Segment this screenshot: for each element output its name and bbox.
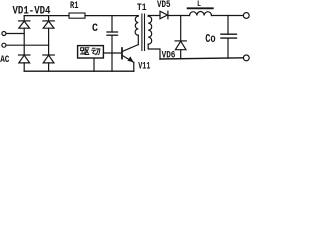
AC input terminal 1: [2, 32, 6, 36]
svg-text:VD1-VD4: VD1-VD4: [13, 6, 51, 18]
wire bridge right column upper lead: [48, 16, 50, 21]
wire inductor to output terminal: [212, 15, 244, 17]
capacitor C: [107, 31, 118, 33]
wire VD6 bottom lead: [180, 50, 182, 59]
output terminal +: [243, 13, 249, 19]
transistor V11 base bar: [121, 48, 123, 59]
transformer T1 primary winding: [135, 16, 138, 35]
svg-text:V11: V11: [138, 62, 150, 73]
wire right column bottom lead: [48, 63, 50, 71]
capacitor Co: [221, 33, 237, 35]
wire R1 to transformer primary: [85, 15, 138, 17]
svg-text:L: L: [197, 0, 201, 9]
transistor V11 collector stroke: [123, 45, 139, 52]
wire Co top lead: [227, 16, 229, 35]
drive box: [78, 46, 104, 58]
svg-text:VD6: VD6: [162, 50, 176, 61]
svg-text:VD5: VD5: [157, 0, 171, 11]
svg-text:AC: AC: [0, 54, 10, 66]
wire bridge left column upper lead: [23, 16, 25, 21]
wire secondary top lead: [148, 15, 160, 18]
svg-text:Co: Co: [205, 33, 216, 46]
bottom rail (primary side): [24, 70, 134, 72]
resistor R1: [69, 13, 85, 18]
wire drive box to base: [103, 52, 121, 54]
wire C top lead: [111, 16, 113, 32]
wire primary bottom lead: [137, 35, 139, 44]
transistor V11 emitter arrow: [127, 56, 133, 62]
wire secondary bottom lead: [148, 44, 160, 59]
svg-text:C: C: [92, 23, 98, 35]
transformer T1 secondary winding: [148, 16, 152, 44]
diode VD4 (right lower): [43, 54, 54, 56]
wire left column bottom lead: [23, 63, 25, 71]
inductor L core bar: [188, 7, 213, 9]
inductor L winding: [190, 12, 212, 16]
wire VD6 top lead: [180, 16, 182, 41]
wire Co bottom lead: [227, 38, 229, 58]
diode VD5: [160, 11, 167, 19]
wire drive box bottom to rail: [93, 58, 95, 71]
wire emitter to bottom rail: [133, 62, 135, 71]
wire C bottom lead: [111, 35, 113, 71]
diode VD3 (left lower): [19, 54, 30, 56]
node: top rail left segment: [24, 15, 69, 17]
glyph 驱: [80, 48, 89, 55]
AC input terminal 2: [2, 43, 6, 47]
wire VD5 to junction and inductor: [168, 15, 190, 17]
glyph 动: [92, 48, 100, 54]
label 驱动 (drive) hand-drawn glyphs: [80, 48, 100, 55]
wire AC2 to bridge right column: [6, 44, 49, 46]
diode VD1 (left upper): [19, 20, 30, 22]
transformer T1 core: [142, 14, 145, 51]
svg-text:T1: T1: [137, 2, 147, 14]
wire right column mid: [48, 28, 50, 55]
svg-text:R1: R1: [70, 1, 79, 12]
transistor V11 emitter stroke: [123, 56, 134, 63]
wire AC1 to bridge left column: [6, 33, 24, 35]
wire left column mid: [23, 28, 25, 55]
output terminal -: [243, 55, 249, 61]
bottom rail (secondary side): [160, 58, 243, 59]
diode VD2 (right upper): [43, 20, 54, 22]
diode VD6: [175, 40, 186, 42]
